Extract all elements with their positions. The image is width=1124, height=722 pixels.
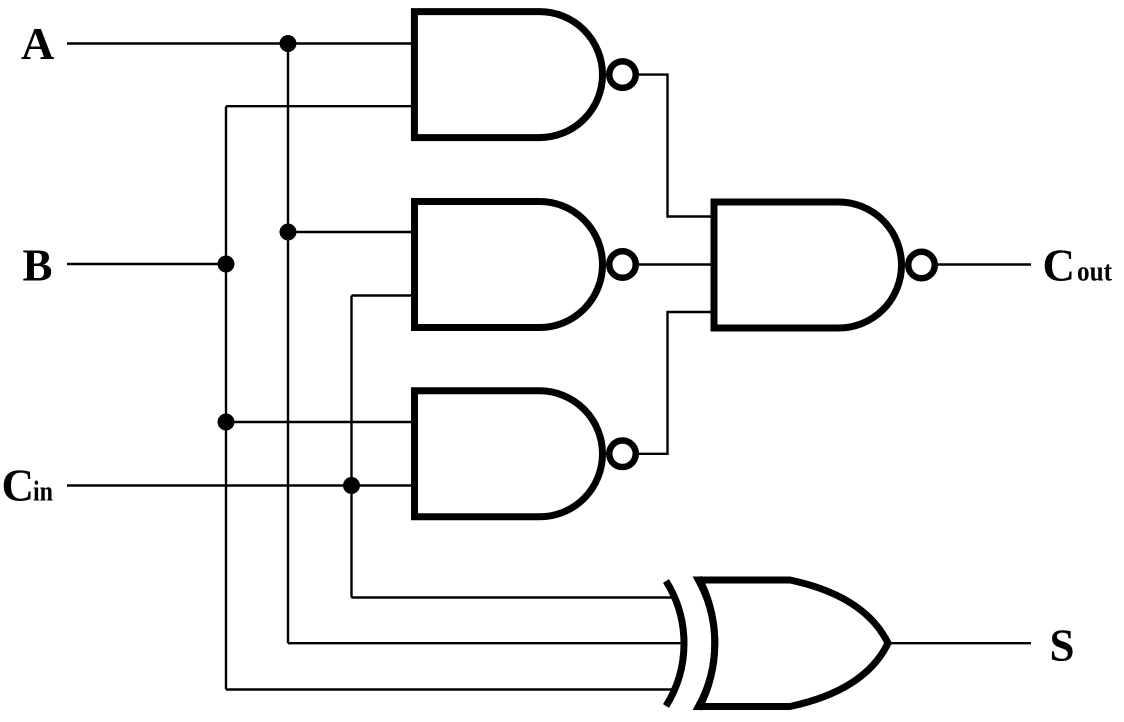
NAND gate U1 body <box>414 12 602 138</box>
wire B to NAND3 input 1 <box>226 421 414 423</box>
svg-text:Cin: Cin <box>2 461 54 511</box>
wire A vertical branch <box>287 44 289 644</box>
wire Cin input <box>67 484 414 486</box>
XOR gate U5 left arc overshoot <box>699 578 715 710</box>
svg-text:S: S <box>1050 621 1075 671</box>
XOR gate U5 input arc <box>666 581 684 706</box>
NAND gate U4 body <box>714 202 902 328</box>
svg-text:Cout: Cout <box>1043 241 1113 291</box>
svg-text:A: A <box>21 18 54 69</box>
NAND U4 inversion bubble <box>908 252 935 279</box>
wire Cin to NAND2 input 2 <box>352 294 415 296</box>
NAND U1 inversion bubble <box>609 61 636 88</box>
XOR gate U5 body <box>699 580 889 707</box>
wire NAND4 output to Cout <box>938 263 1031 265</box>
wire A input <box>67 42 414 44</box>
wire A to XOR middle input <box>288 642 683 644</box>
NAND U3 inversion bubble <box>609 441 636 468</box>
NAND gate U3 body <box>415 391 603 517</box>
wire NAND3 output to NAND4 input 3 <box>639 312 711 454</box>
svg-text:B: B <box>23 241 53 291</box>
wire NAND1 output to NAND4 input 1 <box>639 75 711 217</box>
wire XOR output to S <box>888 642 1031 644</box>
wire B to XOR bottom input <box>226 688 676 690</box>
node A junction dot <box>280 35 297 52</box>
NAND U2 inversion bubble <box>609 251 636 278</box>
wire B input <box>67 263 226 265</box>
node A2 junction dot <box>280 224 297 241</box>
wire Cin vertical branch <box>350 296 352 598</box>
node B2 junction dot <box>218 414 235 431</box>
node Cin junction dot <box>343 477 360 494</box>
wire B to NAND1 input 2 <box>226 105 414 107</box>
wire B vertical branch <box>225 106 227 689</box>
NAND gate U2 body <box>415 202 603 328</box>
wire NAND2 output to NAND4 input 2 <box>639 263 711 265</box>
wire Cin to XOR top input <box>352 596 677 598</box>
node B junction dot <box>218 256 235 273</box>
wire A to NAND2 input 1 <box>288 231 414 233</box>
